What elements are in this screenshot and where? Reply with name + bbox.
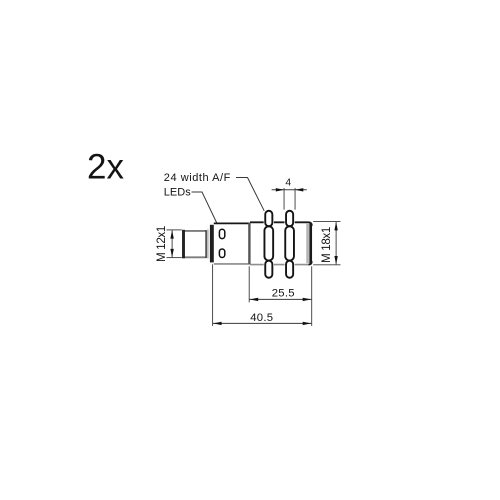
svg-text:25.5: 25.5	[272, 288, 295, 300]
leader line for LEDs	[192, 192, 217, 223]
dimension 4: extension line right	[294, 188, 296, 210]
nut 2 middle facet	[285, 226, 294, 260]
dimension 40.5: left extension line	[212, 264, 214, 326]
nut 1 bottom chamfer	[265, 261, 272, 278]
svg-text:M 18x1: M 18x1	[320, 227, 333, 263]
M12 connector top edge	[183, 230, 206, 232]
svg-text:LEDs: LEDs	[164, 187, 191, 199]
dimension 25.5: left extension line	[248, 266, 250, 302]
dimension 4: extension line left	[283, 188, 285, 210]
M12 connector right end edge	[205, 230, 207, 258]
LED slot 1	[219, 229, 224, 238]
dimension 4: dim line	[272, 189, 307, 191]
nut 1 top chamfer	[265, 211, 272, 227]
hex body bottom edge	[214, 263, 250, 265]
nut 2 top chamfer	[286, 211, 293, 227]
svg-text:40.5: 40.5	[250, 312, 273, 324]
dimension M12x1: dim line	[171, 230, 173, 257]
M12 connector body fill	[183, 230, 207, 258]
dimension 25.5: left arrow	[250, 298, 259, 301]
nut 1 middle facet	[264, 226, 273, 260]
svg-text:M 12x1: M 12x1	[155, 226, 168, 262]
dimension M12x1: down arrow	[170, 249, 173, 258]
barrel left junction edge	[248, 223, 250, 264]
dimension M18x1: dim line	[335, 222, 337, 264]
connector washer line	[207, 230, 209, 259]
dimension 25.5: right arrow	[303, 298, 312, 301]
M12 connector thick left face	[182, 230, 185, 258]
dimension M18x1: top extension line	[313, 221, 340, 223]
M12 connector bottom edge	[183, 256, 206, 258]
dimension M12x1: bottom extension line	[167, 257, 182, 259]
dimension 40.5: dim line	[213, 322, 312, 324]
dimension 25.5: dim line	[250, 298, 312, 300]
nut 2 bottom chamfer	[286, 261, 293, 278]
svg-text:2x: 2x	[87, 148, 124, 187]
dimension M18x1: bottom extension line	[313, 264, 340, 266]
leader line for 24 width A/F	[236, 178, 264, 211]
barrel thick right face	[309, 223, 312, 264]
dimension 40.5: right arrow	[303, 322, 312, 325]
dimension M18x1: up arrow	[334, 222, 337, 231]
svg-text:24 width A/F: 24 width A/F	[164, 172, 231, 184]
dimension M12x1: up arrow	[170, 230, 173, 239]
hex body top edge	[214, 222, 250, 224]
svg-text:4: 4	[285, 177, 291, 188]
dimension 25.5: right extension line	[311, 266, 313, 326]
flange disc	[210, 225, 214, 263]
barrel bottom edge	[250, 264, 308, 266]
nut 2 white underlay	[285, 210, 295, 279]
barrel fill	[250, 222, 312, 264]
dimension M18x1: down arrow	[334, 256, 337, 265]
nut 1 white underlay	[264, 210, 274, 279]
dimension 4: left arrow	[276, 188, 284, 191]
barrel bottom right corner	[308, 261, 311, 264]
dimension 4: right arrow	[295, 188, 303, 191]
dimension 40.5: left arrow	[213, 322, 222, 325]
barrel right inner grey band	[306, 224, 309, 263]
dimension M12x1: top extension line	[167, 229, 182, 231]
LED slot 2	[219, 249, 224, 258]
barrel top edge	[250, 222, 312, 225]
